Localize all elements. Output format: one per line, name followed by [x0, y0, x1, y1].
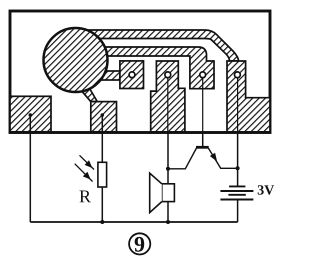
- speaker wire bottom: [167, 202, 169, 222]
- transistor emitter leg with arrow: [208, 148, 237, 168]
- wire from hole 4: [237, 75, 239, 133]
- label 3V: [258, 185, 274, 194]
- emitter arrowhead: [211, 154, 216, 161]
- battery bottom wire: [237, 200, 239, 223]
- transistor base bar: [196, 146, 209, 149]
- light arrow 1: [80, 155, 95, 169]
- junction dot speaker-rail: [166, 220, 170, 224]
- wire from hole 3: [202, 75, 204, 133]
- speaker cone: [150, 173, 162, 212]
- pedestal base: [91, 102, 117, 132]
- contact block 4 (right pillar): [227, 61, 270, 132]
- inner tube wall merged with contact block 3: [95, 47, 214, 89]
- pedestal contact dot and wire: [101, 115, 103, 162]
- speaker body: [162, 184, 175, 202]
- left base block: [10, 96, 51, 132]
- wire from hole 2: [167, 75, 169, 133]
- hole 2: [165, 72, 171, 78]
- speaker wire top: [167, 133, 169, 184]
- pedestal stem: [81, 85, 97, 102]
- junction dot emitter-battery: [236, 166, 240, 170]
- contact block 2 (T pillar): [151, 61, 185, 132]
- junction dot speaker/transistor: [166, 167, 170, 171]
- hole 4: [235, 72, 241, 78]
- hole 1: [129, 72, 135, 78]
- transistor collector leg to speaker junction: [168, 148, 197, 169]
- label R: [80, 191, 91, 203]
- photoresistor R body: [98, 162, 107, 187]
- bottom rail wire: [30, 221, 237, 223]
- hole 3: [200, 72, 206, 78]
- contact block 1: [120, 61, 144, 89]
- figure number circle 9: [129, 233, 150, 254]
- transistor Q1 base wire: [202, 133, 204, 147]
- left contact dot and wire: [29, 115, 31, 222]
- contact arm from ball to contact block 1: [96, 71, 120, 80]
- ball: [44, 28, 108, 92]
- wire below R: [101, 187, 103, 222]
- battery 3V: [220, 186, 253, 199]
- collector wire right: [237, 133, 239, 186]
- outer tube wall (curved, top): [81, 30, 239, 61]
- light arrow 2: [75, 164, 93, 182]
- housing outer box: [10, 11, 270, 133]
- junction dot R-rail: [100, 220, 104, 224]
